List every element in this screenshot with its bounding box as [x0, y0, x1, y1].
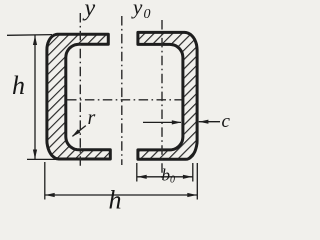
dim h bottom extension left [44, 162, 46, 200]
svg-text:r: r [88, 107, 96, 129]
axis z centerline [67, 99, 182, 101]
svg-text:h: h [109, 186, 122, 215]
dim b0 extension right [192, 163, 194, 182]
channel section right [138, 32, 197, 159]
leader r line [73, 126, 86, 137]
dim c right segment [199, 121, 220, 123]
dim h left line [34, 35, 36, 159]
dim c left segment [143, 121, 181, 123]
dim b0 extension left [136, 163, 138, 182]
dim h left extension top [7, 34, 52, 37]
axis y centerline [79, 13, 81, 168]
axis right-channel centerline [161, 20, 163, 181]
dim h bottom line [45, 194, 197, 196]
svg-text:0: 0 [144, 7, 151, 22]
svg-text:y: y [83, 0, 96, 22]
dim h bottom extension right [196, 163, 198, 200]
svg-text:0: 0 [170, 175, 175, 186]
svg-text:b: b [162, 166, 171, 185]
channel section left [47, 34, 110, 159]
dim h left extension bottom [27, 158, 63, 160]
svg-text:h: h [12, 71, 25, 100]
axis y0 centerline [121, 16, 123, 165]
svg-text:y: y [131, 0, 143, 19]
dim b0 line [137, 176, 193, 178]
svg-text:c: c [222, 111, 231, 132]
